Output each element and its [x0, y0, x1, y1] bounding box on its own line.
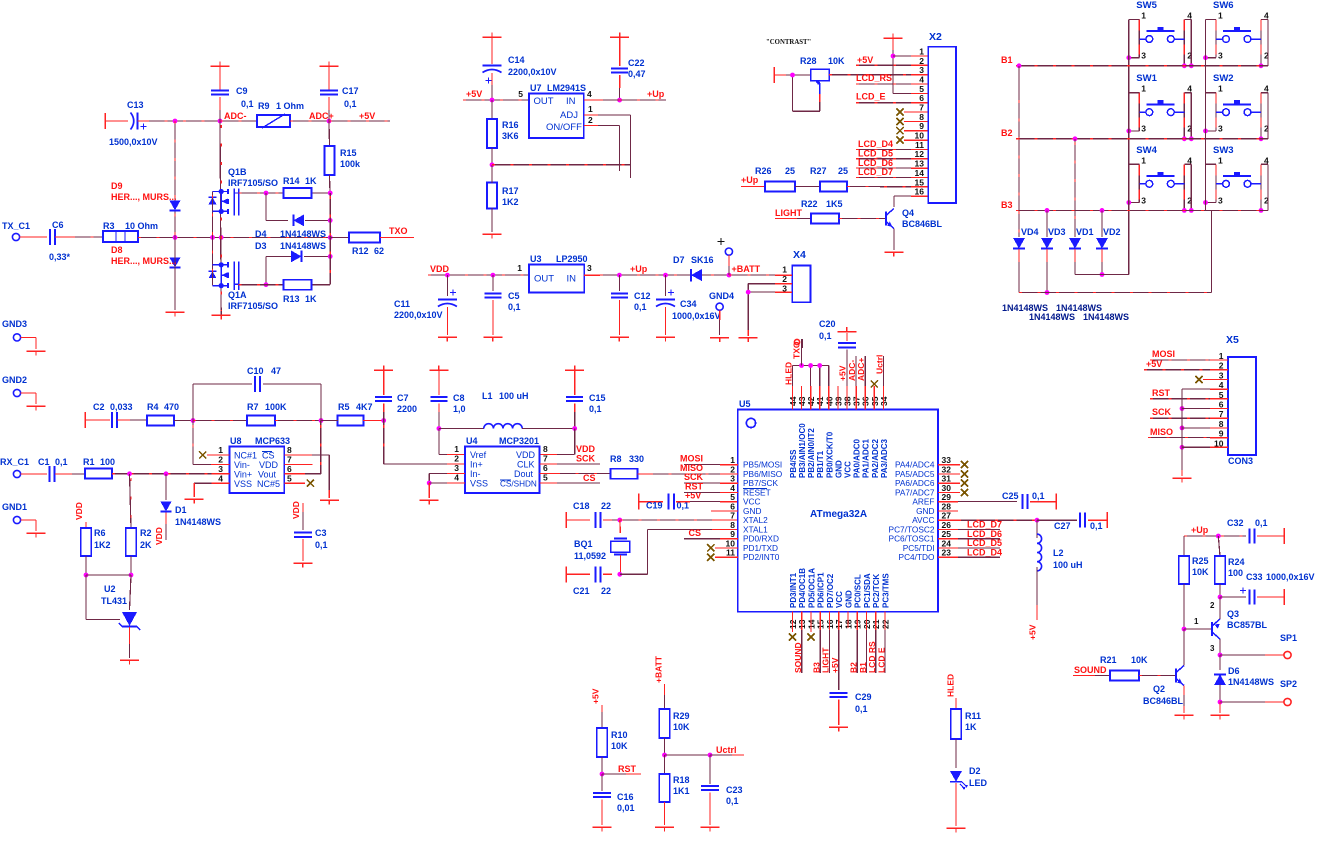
wire X2 pin2 +5V — [856, 64, 911, 66]
svg-text:PC2/TCK: PC2/TCK — [872, 574, 881, 608]
ground below D2 — [947, 827, 966, 829]
wire U8 pin4 VSS to ground — [212, 482, 230, 484]
wire LCD_E pin22 — [884, 612, 886, 630]
svg-text:PA0/ADC0: PA0/ADC0 — [853, 438, 862, 478]
svg-text:C16: C16 — [617, 792, 634, 802]
svg-text:1K: 1K — [305, 294, 317, 304]
svg-text:HER..., MURS...: HER..., MURS... — [111, 256, 177, 266]
svg-text:LCD E: LCD E — [877, 647, 887, 673]
svg-text:GND1: GND1 — [2, 502, 27, 512]
ground below C23 — [701, 826, 720, 828]
svg-text:Q1B: Q1B — [228, 167, 247, 177]
wire Q1 bus — [220, 121, 221, 315]
capacitor C34 — [665, 275, 667, 296]
ground below Q4 — [884, 251, 903, 253]
svg-text:C23: C23 — [726, 785, 743, 795]
wire Q3 collector to SP1 — [1219, 639, 1221, 655]
svg-text:2K: 2K — [140, 540, 152, 550]
wire X2 pin16 to Q4 — [894, 195, 911, 197]
diode D6 — [1219, 655, 1221, 670]
svg-text:OUT: OUT — [534, 96, 554, 107]
svg-text:0,1: 0,1 — [241, 99, 254, 109]
wire AVCC pin27 — [938, 519, 958, 521]
svg-text:VDD: VDD — [576, 444, 596, 454]
wire U5 top pin 44 stub — [791, 386, 793, 410]
svg-text:VD4: VD4 — [1021, 227, 1039, 237]
svg-text:SCK: SCK — [576, 454, 596, 464]
net label Uctrl — [882, 356, 884, 386]
ground above C7 — [374, 369, 393, 371]
svg-text:10K: 10K — [611, 741, 628, 751]
svg-text:PD3/INT1: PD3/INT1 — [789, 572, 798, 608]
svg-text:OUT: OUT — [534, 274, 554, 285]
diode D7 — [691, 269, 702, 281]
svg-text:62: 62 — [374, 246, 384, 256]
wire X2 pin11 — [856, 148, 911, 150]
node junction — [264, 191, 269, 196]
svg-text:HLED: HLED — [946, 674, 956, 697]
ground above C14 — [483, 36, 502, 38]
node junction — [603, 573, 612, 575]
connector X5 — [1228, 357, 1256, 455]
svg-text:C20: C20 — [819, 319, 836, 329]
svg-text:0,47: 0,47 — [628, 69, 646, 79]
no-connect pin35 — [871, 380, 878, 387]
svg-text:LIGHT: LIGHT — [775, 208, 802, 218]
svg-text:1: 1 — [588, 104, 593, 114]
wire U5 top pin 42 stub — [810, 386, 812, 410]
node junction — [617, 98, 622, 103]
wire switch hookup — [1206, 19, 1217, 21]
svg-text:1500,0x10V: 1500,0x10V — [109, 137, 158, 147]
svg-text:1: 1 — [1218, 84, 1223, 94]
svg-text:HLED: HLED — [784, 362, 794, 385]
svg-text:R27: R27 — [810, 166, 827, 176]
svg-text:+5V: +5V — [857, 55, 873, 65]
wire VDD to U4 pin8 — [574, 429, 576, 455]
svg-text:1: 1 — [1218, 155, 1223, 165]
net label TXO — [801, 339, 803, 366]
wire B2 row — [1016, 138, 1268, 140]
resistor R11 — [955, 698, 957, 709]
svg-text:R17: R17 — [502, 186, 519, 196]
svg-text:1: 1 — [218, 445, 223, 455]
resistor R26 — [741, 186, 765, 188]
wire MOSI — [684, 464, 720, 466]
svg-text:C29: C29 — [855, 692, 872, 702]
transistor Q2 NPN — [1139, 675, 1176, 677]
svg-text:RST: RST — [685, 482, 704, 492]
no-connect pin11 — [707, 554, 714, 561]
potentiometer R28 — [773, 67, 775, 83]
ground below U2 — [120, 659, 139, 661]
svg-text:CS: CS — [688, 528, 701, 538]
svg-text:TX_C1: TX_C1 — [2, 221, 30, 231]
svg-text:IRF7105/SO: IRF7105/SO — [228, 301, 278, 311]
svg-text:1: 1 — [454, 444, 459, 454]
inductor L1 — [439, 428, 484, 430]
svg-text:3: 3 — [1218, 51, 1223, 61]
svg-text:1N4148WS: 1N4148WS — [1083, 312, 1129, 322]
svg-text:PD6/ICP1: PD6/ICP1 — [817, 572, 826, 608]
svg-text:U5: U5 — [739, 399, 751, 409]
wire X5 pin9 — [1148, 437, 1210, 439]
ground above C20 — [837, 331, 856, 333]
net label Uctrl — [665, 754, 711, 756]
capacitor C11 — [446, 275, 448, 296]
node junction — [617, 273, 622, 278]
wire to ground — [1219, 702, 1221, 713]
svg-text:1000,0x16V: 1000,0x16V — [672, 311, 721, 321]
svg-text:+5V: +5V — [591, 688, 601, 704]
svg-text:R26: R26 — [755, 166, 772, 176]
wire — [584, 274, 600, 276]
no-connect U5 pin 33 — [938, 464, 960, 466]
node junction — [174, 420, 193, 422]
capacitor C14 — [491, 37, 493, 64]
svg-text:C13: C13 — [127, 100, 144, 110]
node junction — [173, 235, 178, 240]
svg-text:VD2: VD2 — [1103, 227, 1121, 237]
wire Q2 emitter to ground — [1183, 686, 1185, 696]
svg-text:C7: C7 — [397, 393, 409, 403]
svg-text:PB1/T1: PB1/T1 — [816, 450, 825, 478]
svg-text:VD3: VD3 — [1048, 227, 1066, 237]
wire GND pin6 stub — [711, 510, 738, 512]
net label +Up — [584, 99, 600, 101]
ground below GND4 — [710, 337, 729, 339]
capacitor C23 — [709, 755, 711, 784]
wire wiper feedback — [819, 94, 821, 102]
svg-text:C6: C6 — [52, 220, 64, 230]
node junction — [1182, 627, 1187, 632]
svg-text:R21: R21 — [1100, 655, 1117, 665]
svg-text:ATmega32A: ATmega32A — [810, 509, 867, 520]
wire B3 row — [1016, 209, 1268, 211]
ground above C15 — [565, 369, 584, 371]
svg-text:U7: U7 — [530, 83, 542, 93]
wire switch hookup — [1129, 163, 1140, 165]
ground below X4 — [739, 337, 758, 339]
wire RXD pin9 — [684, 538, 720, 540]
svg-text:BC857BL: BC857BL — [1227, 620, 1268, 630]
wire Q2 collector — [1183, 629, 1185, 666]
resistor R21 — [1073, 675, 1095, 677]
capacitor C9 — [219, 66, 221, 90]
svg-text:GND3: GND3 — [2, 319, 27, 329]
svg-text:+5V: +5V — [466, 89, 482, 99]
resistor R12 — [330, 236, 349, 238]
svg-text:MCP633: MCP633 — [255, 436, 290, 446]
wire bus column2 — [1205, 20, 1207, 211]
svg-text:8: 8 — [287, 445, 292, 455]
svg-text:PA2/ADC2: PA2/ADC2 — [871, 438, 880, 478]
wire Q4 emitter to ground — [893, 229, 895, 251]
svg-text:SW5: SW5 — [1136, 0, 1157, 11]
svg-text:L2: L2 — [1053, 548, 1064, 558]
svg-text:CS/SHDN: CS/SHDN — [500, 480, 537, 489]
svg-text:GND4: GND4 — [709, 291, 734, 301]
node junction — [328, 254, 333, 259]
svg-text:PD7/OC2: PD7/OC2 — [826, 573, 835, 608]
svg-text:SW2: SW2 — [1213, 73, 1234, 84]
wire X5 pin7 — [1150, 417, 1210, 419]
svg-text:2200,0x10V: 2200,0x10V — [394, 310, 443, 320]
svg-text:22: 22 — [601, 501, 611, 511]
svg-text:C3: C3 — [315, 528, 327, 538]
svg-text:+Up: +Up — [630, 264, 648, 274]
svg-text:PB2/AIN0/IT2: PB2/AIN0/IT2 — [807, 428, 816, 478]
wire B3 pin15 — [819, 612, 821, 630]
resistor R4 — [117, 419, 130, 421]
svg-text:0,1: 0,1 — [1255, 518, 1268, 528]
svg-text:R28: R28 — [800, 56, 817, 66]
wire pin24 — [938, 547, 958, 549]
svg-text:10K: 10K — [828, 56, 845, 66]
svg-text:VDD: VDD — [74, 502, 84, 520]
terminal + battery — [718, 241, 725, 243]
svg-text:PB0/XCK/T0: PB0/XCK/T0 — [825, 431, 834, 478]
diode D4 — [265, 193, 267, 220]
svg-text:C14: C14 — [508, 55, 525, 65]
ground below Q1A — [212, 314, 231, 316]
svg-text:R13: R13 — [283, 294, 300, 304]
svg-text:0,1: 0,1 — [508, 302, 521, 312]
capacitor C10 feedback — [192, 384, 194, 421]
wire U5 top pin 34 stub — [882, 386, 884, 410]
no-connect X5 pin3 — [1195, 376, 1202, 383]
svg-text:B3: B3 — [1001, 200, 1013, 210]
wire Q3 emitter — [1219, 597, 1221, 619]
svg-text:3K6: 3K6 — [502, 131, 519, 141]
no-connect U5 pin 31 — [938, 482, 960, 484]
wire X2 pin4 — [856, 83, 911, 85]
svg-text:1N4148WS: 1N4148WS — [1029, 312, 1075, 322]
svg-text:0,1: 0,1 — [819, 331, 832, 341]
capacitor C12 — [618, 275, 620, 291]
svg-text:L1: L1 — [482, 391, 493, 401]
ground above C22 — [610, 36, 629, 38]
wire GND pin28 stub — [938, 510, 958, 512]
svg-text:1: 1 — [517, 263, 522, 273]
svg-text:B2: B2 — [1001, 128, 1013, 138]
svg-text:SW6: SW6 — [1213, 0, 1234, 11]
svg-text:GND: GND — [845, 590, 854, 608]
svg-text:RST: RST — [618, 764, 637, 774]
svg-text:TXO: TXO — [792, 341, 802, 359]
svg-text:D6: D6 — [1228, 666, 1240, 676]
svg-text:SW1: SW1 — [1136, 73, 1157, 84]
svg-text:ADC-: ADC- — [224, 111, 247, 121]
node junction — [327, 119, 332, 124]
resistor R17 — [487, 183, 497, 209]
svg-text:16: 16 — [915, 187, 925, 197]
resistor R7 — [193, 420, 247, 422]
svg-text:7: 7 — [543, 454, 548, 464]
svg-text:100 uH: 100 uH — [1053, 560, 1083, 570]
svg-text:BC846BL: BC846BL — [1143, 696, 1184, 706]
svg-text:R5: R5 — [338, 402, 350, 412]
svg-text:2: 2 — [454, 454, 459, 464]
wire LCD_RS pin21 — [875, 612, 877, 630]
resistor R8 — [540, 473, 558, 475]
ground below X5 — [1173, 477, 1192, 479]
wire U8 pin2 from summing node — [192, 421, 194, 465]
ground below C3 — [293, 562, 312, 564]
no-connect X2 pins 7-10 — [896, 108, 903, 115]
svg-text:1K: 1K — [965, 722, 977, 732]
resistor R18 — [664, 755, 666, 774]
wire ADJ feedback — [584, 114, 598, 116]
wire body-diode link — [212, 192, 214, 286]
ground below C29 — [829, 726, 848, 728]
node junction — [572, 426, 577, 431]
node junction — [328, 218, 333, 223]
terminal SP2 — [1220, 701, 1265, 703]
svg-text:100 uH: 100 uH — [499, 391, 529, 401]
svg-text:Uctrl: Uctrl — [875, 355, 885, 374]
svg-text:1K2: 1K2 — [502, 197, 519, 207]
svg-text:R7: R7 — [247, 402, 259, 412]
wire X5 pin4 gnd — [1182, 388, 1210, 390]
svg-text:R25: R25 — [1192, 556, 1209, 566]
svg-text:4: 4 — [218, 474, 223, 484]
ground below R18 — [655, 826, 674, 828]
wire right bus — [329, 193, 331, 285]
svg-text:R18: R18 — [673, 775, 690, 785]
resistor R24 — [1218, 536, 1220, 556]
svg-text:3: 3 — [1141, 195, 1146, 205]
svg-text:Vout: Vout — [258, 470, 277, 480]
wire X5 ground bus — [1181, 389, 1183, 470]
svg-text:Q2: Q2 — [1153, 684, 1165, 694]
svg-text:0,1: 0,1 — [855, 704, 868, 714]
svg-text:3: 3 — [1218, 124, 1223, 134]
svg-text:MCP3201: MCP3201 — [499, 436, 539, 446]
wire X4 pin1 — [729, 274, 775, 276]
svg-text:R2: R2 — [140, 528, 152, 538]
node junction — [84, 573, 89, 578]
ground below D8 — [166, 311, 185, 313]
wire U8 pin7 VDD stub — [284, 463, 312, 465]
svg-text:10K: 10K — [1131, 655, 1148, 665]
svg-text:BQ1: BQ1 — [574, 539, 593, 549]
svg-text:PD5/OC1A: PD5/OC1A — [807, 568, 816, 608]
svg-text:R4: R4 — [147, 402, 159, 412]
no-connect pin12 — [791, 612, 793, 632]
svg-text:MOSI: MOSI — [1152, 349, 1175, 359]
no-connect U5 pin 32 — [938, 473, 960, 475]
svg-text:RST: RST — [1152, 388, 1171, 398]
svg-text:0,1: 0,1 — [1090, 521, 1103, 531]
svg-text:Q1A: Q1A — [228, 290, 247, 300]
mcu U5 ATmega32A — [738, 410, 938, 612]
svg-text:X4: X4 — [793, 249, 806, 261]
net label TXO — [380, 236, 414, 238]
svg-text:GND2: GND2 — [2, 375, 27, 385]
capacitor C21 — [565, 566, 567, 582]
no-connect U8 pin5 — [284, 482, 305, 484]
svg-text:3: 3 — [587, 263, 592, 273]
svg-text:PD2/INT0: PD2/INT0 — [743, 552, 780, 562]
svg-text:PC0/SCL: PC0/SCL — [854, 574, 863, 608]
capacitor C6 — [20, 236, 47, 238]
svg-text:HER..., MURS...: HER..., MURS... — [111, 192, 177, 202]
node junction — [1218, 700, 1223, 705]
net label RST — [602, 773, 626, 775]
svg-text:2200,0x10V: 2200,0x10V — [508, 67, 557, 77]
svg-text:PB3/AIN1/OC0: PB3/AIN1/OC0 — [798, 423, 807, 478]
svg-text:1: 1 — [782, 265, 787, 275]
capacitor C5 — [492, 275, 494, 291]
wire — [138, 120, 147, 122]
wire X5 pin8 — [1180, 426, 1185, 431]
wire switch hookup — [1206, 92, 1217, 94]
wire — [112, 473, 212, 475]
svg-text:SP2: SP2 — [1280, 679, 1297, 689]
svg-text:+5V: +5V — [359, 111, 375, 121]
svg-text:B1: B1 — [1001, 55, 1013, 65]
svg-text:11,0592: 11,0592 — [574, 551, 606, 561]
svg-text:C19: C19 — [646, 501, 663, 511]
capacitor C16 — [601, 774, 603, 791]
svg-text:VDD: VDD — [154, 527, 164, 545]
wire X2 pin6 — [856, 102, 911, 104]
no-connect pin14 — [810, 612, 812, 632]
capacitor C2 — [84, 412, 86, 428]
svg-text:+Up: +Up — [1191, 525, 1209, 535]
wire U5 top pin 36 stub — [864, 386, 866, 410]
svg-text:Uctrl: Uctrl — [716, 745, 737, 755]
op-amp U8 MCP633 — [230, 447, 285, 493]
svg-text:SW3: SW3 — [1213, 145, 1234, 156]
svg-text:VDD: VDD — [291, 501, 301, 519]
svg-text:R3: R3 — [103, 221, 115, 231]
svg-text:D1: D1 — [175, 505, 187, 515]
svg-text:R24: R24 — [1228, 557, 1245, 567]
node junction — [790, 73, 795, 78]
svg-text:CS: CS — [583, 473, 596, 483]
svg-text:C21: C21 — [573, 586, 590, 596]
transistor Q3 PNP — [1184, 628, 1212, 630]
capacitor C29 — [830, 692, 848, 694]
svg-text:C11: C11 — [394, 299, 410, 309]
svg-text:330: 330 — [629, 454, 644, 464]
wire X5 pin5 — [1150, 398, 1210, 400]
wire +5V pin17 to C29 — [838, 612, 840, 630]
svg-text:D3: D3 — [255, 241, 267, 251]
svg-text:C9: C9 — [236, 86, 248, 96]
svg-text:C10: C10 — [247, 366, 264, 376]
svg-text:LM2941S: LM2941S — [547, 83, 586, 93]
svg-text:Vin-: Vin- — [234, 460, 250, 470]
svg-text:1N4148WS: 1N4148WS — [280, 229, 326, 239]
svg-text:+Up: +Up — [647, 89, 665, 99]
resistor R9 — [220, 120, 257, 122]
svg-text:GND: GND — [834, 460, 843, 478]
svg-text:VSS: VSS — [470, 479, 488, 489]
svg-text:5: 5 — [287, 474, 292, 484]
svg-text:LCD_D7: LCD_D7 — [858, 167, 893, 177]
ground below C5 — [483, 336, 502, 338]
svg-text:VD1: VD1 — [1076, 227, 1094, 237]
svg-text:1: 1 — [1218, 11, 1223, 21]
ground above X2 pin1 — [884, 37, 903, 39]
svg-text:+5V: +5V — [830, 657, 840, 673]
wire U8 pin3 input — [212, 473, 230, 475]
wire LIGHT pin16 — [828, 612, 830, 630]
svg-text:U8: U8 — [230, 436, 242, 446]
